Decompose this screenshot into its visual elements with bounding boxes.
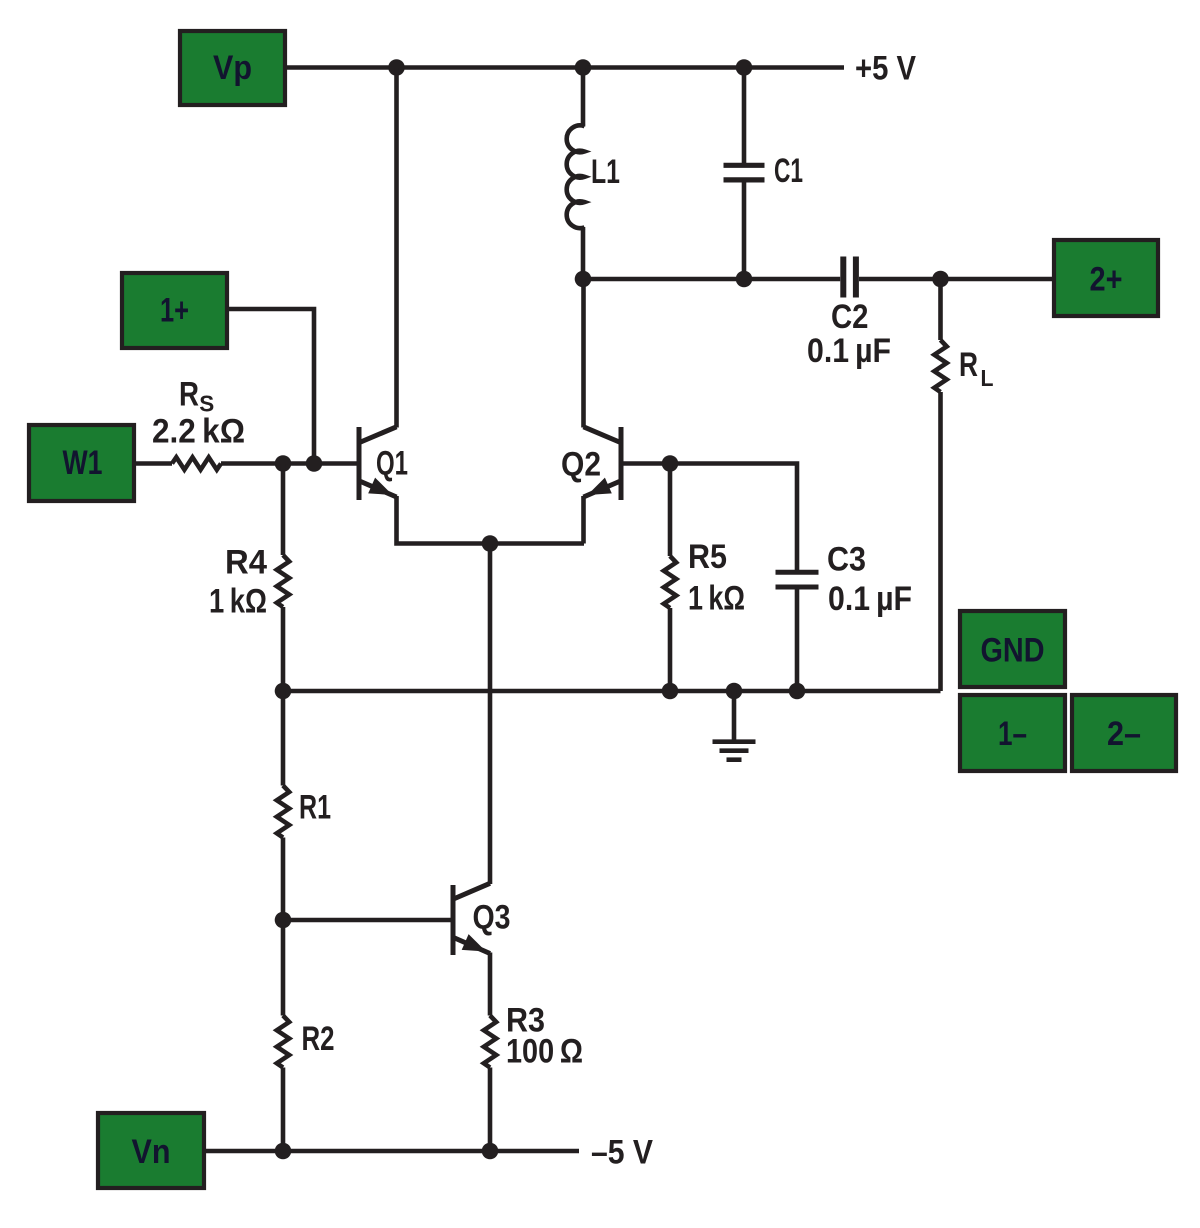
wire mid rail (L1/C1 bottom to C2) bbox=[583, 277, 840, 282]
node C1 top junction bbox=[736, 59, 753, 76]
svg-text:L: L bbox=[981, 365, 994, 391]
svg-text:W1: W1 bbox=[63, 444, 103, 482]
resistor R5 bbox=[668, 464, 673, 557]
terminal box 1+ bbox=[122, 273, 227, 348]
capacitor C3 bbox=[776, 570, 819, 575]
node W1/R4 junction bbox=[275, 455, 292, 472]
svg-text:–5 V: –5 V bbox=[591, 1134, 653, 1172]
node R5 bottom junction bbox=[662, 683, 679, 700]
node output junction to RL bbox=[932, 271, 949, 288]
node L1 bottom junction bbox=[575, 271, 592, 288]
svg-text:2+: 2+ bbox=[1090, 261, 1123, 299]
svg-text:GND: GND bbox=[981, 632, 1045, 670]
svg-text:R2: R2 bbox=[302, 1020, 335, 1058]
wire Q3 base bbox=[283, 918, 451, 923]
wire Q1 collector vertical bbox=[394, 68, 399, 428]
wire Q2 collector vertical bbox=[581, 279, 586, 428]
resistor RL bbox=[938, 279, 943, 340]
wire Q2 emitter vertical bbox=[581, 496, 586, 544]
svg-text:1+: 1+ bbox=[160, 292, 189, 330]
node Vp junction at Q1 collector bbox=[388, 59, 405, 76]
terminal box GND bbox=[960, 611, 1065, 687]
wire Q3 collector vertical bbox=[488, 544, 493, 885]
svg-text:Vn: Vn bbox=[132, 1133, 171, 1171]
svg-text:R: R bbox=[959, 346, 978, 384]
svg-text:+5 V: +5 V bbox=[855, 50, 916, 88]
terminal box 1- bbox=[960, 695, 1065, 771]
ground symbol bbox=[732, 691, 737, 740]
node R2 bottom junction bbox=[275, 1143, 292, 1160]
inductor L1 bbox=[581, 68, 586, 127]
wire W1 to RS bbox=[134, 461, 172, 466]
node emitter bus junction bbox=[482, 535, 499, 552]
resistor RS bbox=[172, 457, 221, 469]
svg-text:Q2: Q2 bbox=[561, 446, 601, 484]
node Q2 base / R5 junction bbox=[662, 455, 679, 472]
transistor Q3 bbox=[451, 885, 456, 955]
node ground junction bbox=[726, 683, 743, 700]
svg-text:1 kΩ: 1 kΩ bbox=[209, 583, 267, 621]
wire Q2 base to R5/C3 bbox=[623, 464, 797, 571]
node C1 bottom junction bbox=[736, 271, 753, 288]
wire 1+ to Q1 base node bbox=[227, 309, 314, 464]
terminal box 2- bbox=[1072, 695, 1176, 771]
svg-text:100 Ω: 100 Ω bbox=[506, 1033, 583, 1071]
svg-text:Vp: Vp bbox=[213, 49, 252, 87]
svg-text:1 kΩ: 1 kΩ bbox=[688, 580, 745, 618]
svg-text:C1: C1 bbox=[774, 152, 803, 190]
resistor R1 bbox=[281, 691, 286, 786]
svg-text:R1: R1 bbox=[299, 789, 331, 827]
svg-text:R4: R4 bbox=[225, 544, 267, 582]
wire ground rail bbox=[283, 689, 941, 694]
resistor R4 bbox=[281, 464, 286, 556]
svg-text:0.1 µF: 0.1 µF bbox=[828, 580, 912, 618]
svg-text:C3: C3 bbox=[827, 541, 866, 579]
node C3 bottom junction bbox=[789, 683, 806, 700]
wire bottom -5V rail bbox=[204, 1149, 579, 1154]
node R3 bottom junction bbox=[482, 1143, 499, 1160]
wire Q1 emitter to shared node bbox=[397, 496, 585, 544]
transistor Q1 bbox=[357, 427, 362, 500]
terminal box 2+ bbox=[1054, 240, 1158, 316]
svg-text:C2: C2 bbox=[831, 298, 869, 336]
svg-text:2.2 kΩ: 2.2 kΩ bbox=[152, 413, 245, 451]
node L1 top junction bbox=[575, 59, 592, 76]
wire RS to Q1 base bbox=[221, 461, 357, 466]
svg-text:R5: R5 bbox=[688, 538, 727, 576]
svg-text:Q3: Q3 bbox=[473, 899, 511, 937]
svg-text:R: R bbox=[179, 376, 199, 414]
terminal box Vp bbox=[180, 31, 285, 105]
node R1/R2/Q3 base junction bbox=[275, 912, 292, 929]
capacitor C2 bbox=[840, 257, 846, 298]
terminal box Vn bbox=[98, 1113, 204, 1188]
svg-text:L1: L1 bbox=[591, 153, 620, 191]
resistor R2 bbox=[281, 920, 286, 1016]
wire top +5V rail bbox=[285, 65, 844, 70]
node 1+ junction bbox=[306, 455, 323, 472]
terminal box W1 bbox=[29, 425, 134, 501]
resistor R3 bbox=[488, 953, 493, 1016]
svg-text:2–: 2– bbox=[1107, 715, 1141, 753]
svg-text:1–: 1– bbox=[998, 715, 1027, 753]
svg-text:Q1: Q1 bbox=[376, 445, 408, 483]
transistor Q2 bbox=[619, 427, 624, 500]
node R4/R1 junction bbox=[275, 683, 292, 700]
capacitor C1 bbox=[742, 68, 747, 166]
svg-text:0.1 µF: 0.1 µF bbox=[807, 332, 891, 370]
